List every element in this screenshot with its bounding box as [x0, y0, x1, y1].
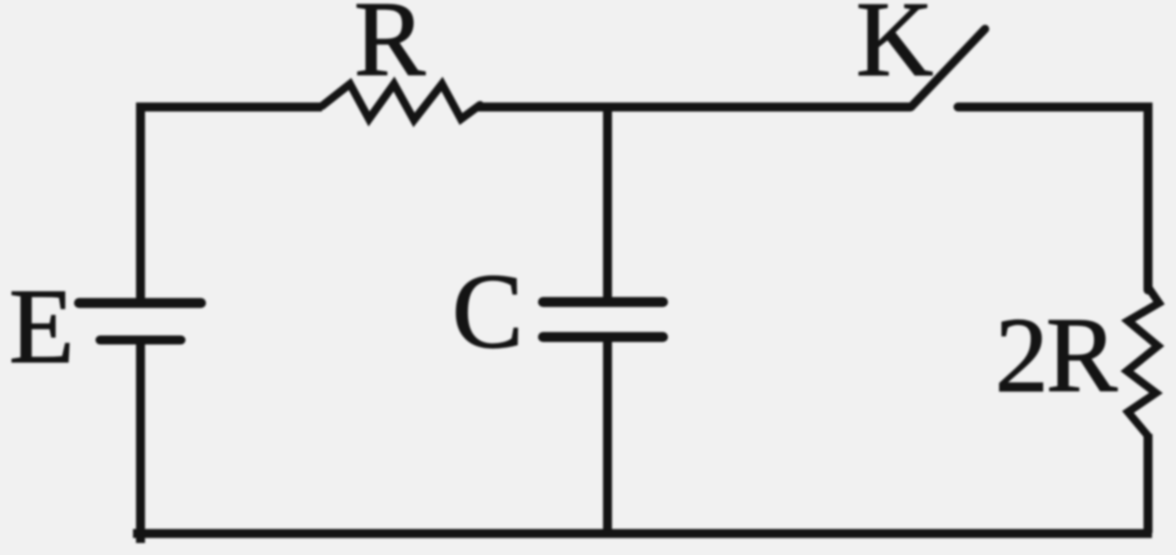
battery E long plate: [79, 298, 201, 308]
wire top-middle horizontal: [478, 103, 911, 112]
wire right vertical lower: [1144, 434, 1153, 533]
battery E short plate: [100, 336, 181, 345]
wire bottom horizontal: [133, 529, 1152, 538]
svg-text:C: C: [452, 253, 523, 371]
resistor R1 zigzag: [322, 84, 480, 120]
resistor R2 (2R) zigzag: [1127, 287, 1159, 436]
wire top-left horizontal: [141, 107, 323, 299]
wire left vertical lower: [136, 340, 145, 543]
svg-text:E: E: [9, 268, 74, 386]
svg-text:K: K: [856, 0, 933, 99]
svg-text:R: R: [354, 0, 426, 99]
wire middle vertical upper: [603, 107, 612, 302]
svg-text:R: R: [1046, 297, 1118, 415]
capacitor C top plate: [543, 297, 663, 307]
capacitor C bottom plate: [543, 332, 663, 342]
svg-text:2: 2: [995, 297, 1049, 415]
wire middle vertical lower: [603, 337, 612, 537]
wire top-right horizontal: [958, 107, 1148, 290]
switch K blade: [911, 29, 985, 107]
